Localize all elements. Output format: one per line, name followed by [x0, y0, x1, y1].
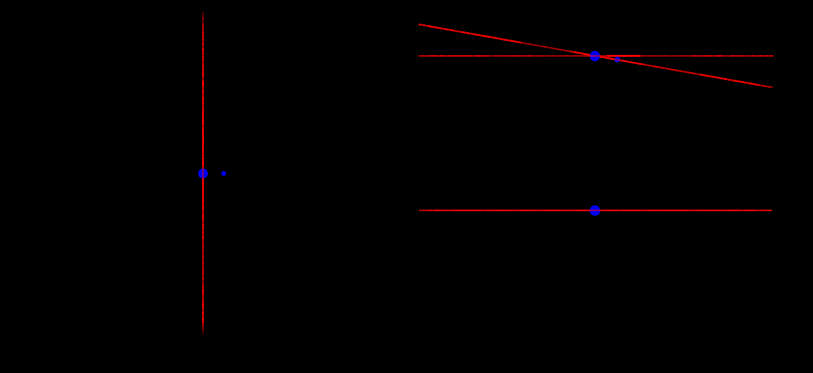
- left panel: vertical red eigenvalue scatter line: [202, 12, 204, 335]
- stripe of sloped line over small top-right dot: [614, 59, 621, 60]
- top-right panel: sloped red eigenvalue scatter line: [419, 24, 773, 87]
- bottom-right panel: horizontal red eigenvalue scatter line: [419, 209, 772, 211]
- stripe of crossing lines over top-right dot: [589, 55, 601, 57]
- bottom-right panel: large blue eigenvalue dot: [590, 205, 601, 216]
- left panel: small blue perturbed-eigenvalue dot: [221, 171, 226, 176]
- left panel: large blue eigenvalue dot: [198, 169, 208, 179]
- stripe of vertical line over left dot: [202, 168, 204, 180]
- top-right panel: small blue perturbed-eigenvalue dot: [614, 57, 620, 63]
- stripe of horizontal line over bottom-right dot: [589, 209, 601, 211]
- top-right panel: large blue eigenvalue dot at line crossing: [590, 51, 600, 61]
- top-right panel: horizontal red eigenvalue scatter line: [418, 55, 773, 57]
